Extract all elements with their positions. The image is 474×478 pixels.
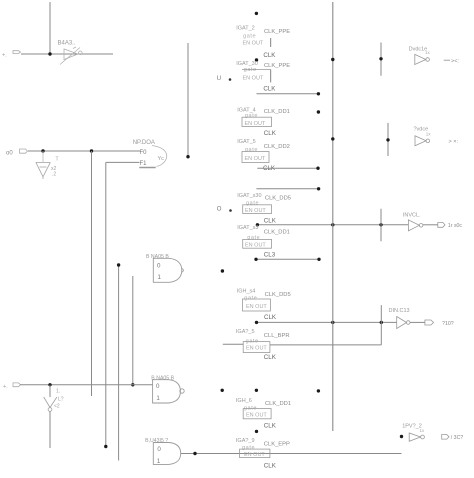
NAND gate G2 body <box>153 380 181 403</box>
svg-text:CLK: CLK <box>264 217 277 224</box>
wire bus D vertical <box>132 276 134 385</box>
svg-text:INVCL.: INVCL. <box>403 212 421 218</box>
clamp X1 stub <box>42 151 44 162</box>
junction node S1 a <box>48 383 51 386</box>
wire U3 output <box>423 224 438 226</box>
svg-text:o0: o0 <box>6 151 13 157</box>
junction on G3 output <box>193 452 196 455</box>
svg-text:B NA05 B: B NA05 B <box>146 254 169 260</box>
inverter U5 <box>409 433 424 441</box>
wire net O0 horizontal <box>28 150 140 152</box>
wire net S1 horizontal <box>20 384 153 386</box>
svg-text:EN OUT: EN OUT <box>244 452 265 458</box>
gated clock cell B7 <box>237 289 291 321</box>
junction B2 out end <box>317 92 320 95</box>
node dot above B2 <box>255 58 258 61</box>
wire B8 riser <box>380 305 382 345</box>
wire bus A vertical <box>91 151 93 396</box>
svg-text:NP.DOA: NP.DOA <box>133 140 155 146</box>
gated clock cell B1 <box>236 26 290 59</box>
node dot above B1 <box>255 12 258 15</box>
svg-text:IGH_s4: IGH_s4 <box>237 289 256 295</box>
wire bus B corner to F1 <box>106 161 140 163</box>
svg-text:+.: +. <box>3 384 8 390</box>
wire G3 output <box>181 453 402 455</box>
svg-text:0: 0 <box>157 446 161 453</box>
svg-text:EN OUT: EN OUT <box>245 156 266 162</box>
input port IN1 <box>2 51 21 59</box>
tap segment T3 right <box>380 209 382 242</box>
svg-text:CLK: CLK <box>263 86 276 93</box>
junction node Y <box>186 155 189 158</box>
inverter U3 <box>408 220 423 231</box>
tap T2 junction <box>386 138 389 141</box>
svg-text:/ 3C?: / 3C? <box>451 435 464 441</box>
svg-text:IGAT_s3: IGAT_s3 <box>237 225 258 231</box>
svg-text:T: T <box>56 157 59 163</box>
svg-text:1x: 1x <box>425 50 431 55</box>
trunk junction top <box>331 58 334 61</box>
gated clock cell B3 <box>237 107 290 137</box>
svg-text:EN OUT: EN OUT <box>243 76 264 82</box>
svg-text:0: 0 <box>157 262 161 269</box>
svg-text:gate: gate <box>244 295 257 301</box>
svg-text:IGAT_30: IGAT_30 <box>236 61 258 67</box>
svg-text:EN OUT: EN OUT <box>246 413 267 419</box>
svg-text:IGA?_9: IGA?_9 <box>236 438 255 444</box>
svg-text:CLK_PPE: CLK_PPE <box>264 63 290 69</box>
svg-text:EN OUT: EN OUT <box>245 208 266 214</box>
svg-text:CLK: CLK <box>264 354 277 361</box>
svg-text:1x: 1x <box>426 132 432 137</box>
wire B8 stub left <box>223 343 243 345</box>
wire bus C vertical <box>118 265 120 461</box>
gated clock cell B5 <box>237 193 291 224</box>
svg-text:gate: gate <box>243 33 256 39</box>
gated clock cell B8 <box>236 329 290 361</box>
tap segment T1 right <box>380 43 382 76</box>
svg-text:gate: gate <box>242 445 255 451</box>
inverter U4 <box>397 317 410 329</box>
clamp X2 tail <box>49 412 51 449</box>
junction node O0 b <box>90 149 93 152</box>
wire U4 output <box>410 321 425 323</box>
gated clock cell B6 <box>237 225 290 258</box>
inverter U1 <box>415 54 430 64</box>
wire B7 out to inverter U4 <box>257 321 397 323</box>
svg-text:CLK: CLK <box>264 130 277 137</box>
wire trunk CLK vertical <box>332 2 334 431</box>
svg-text:F0: F0 <box>140 150 148 156</box>
svg-text:EN OUT: EN OUT <box>246 346 267 352</box>
junction bus C top <box>117 263 120 266</box>
svg-text:CLK_DD1: CLK_DD1 <box>264 109 290 115</box>
node dot right of G1 <box>221 269 224 272</box>
svg-text:IGH_6: IGH_6 <box>236 398 252 404</box>
AND gate G0 bottom bar <box>139 167 155 169</box>
svg-text:EN OUT: EN OUT <box>245 243 266 249</box>
port marker O left of B5 <box>217 207 232 213</box>
svg-text:CLK_DD2: CLK_DD2 <box>264 144 290 150</box>
junction B5 tap <box>379 223 382 226</box>
wire B2 out <box>257 93 319 95</box>
svg-text:Yc: Yc <box>158 156 165 162</box>
svg-text:?10?: ?10? <box>442 321 454 327</box>
svg-text:CLK_PPE: CLK_PPE <box>264 29 290 35</box>
svg-text:EN OUT: EN OUT <box>243 40 264 46</box>
output port P4 <box>425 320 454 327</box>
wire vertical top-left <box>49 2 51 54</box>
clamp X2 triangle <box>44 397 57 411</box>
wire B8 out right <box>270 344 381 346</box>
svg-text:EN OUT: EN OUT <box>246 304 267 310</box>
output port P1 <box>444 59 460 65</box>
svg-text:B4A3..: B4A3.. <box>58 41 76 47</box>
node dot above B9 left <box>221 389 224 392</box>
NAND gate G3 body <box>153 443 180 465</box>
AND gate G0 body <box>152 146 167 167</box>
junction B7 tap <box>380 321 383 324</box>
output port P3 <box>438 223 463 230</box>
wire B6 out <box>256 258 319 260</box>
svg-text:1r s0c: 1r s0c <box>448 223 463 229</box>
gated clock cell B9 <box>236 398 291 429</box>
svg-text:F1: F1 <box>140 161 148 167</box>
node dot above B10 <box>255 430 258 433</box>
junction node top-left <box>48 52 51 55</box>
junction bus B bottom <box>104 445 107 448</box>
junction B6 out end <box>317 258 320 261</box>
junction B4 out end <box>316 167 319 170</box>
svg-text:1: 1 <box>158 274 162 281</box>
wire B4 out <box>257 167 318 169</box>
inverter U2 <box>415 136 430 146</box>
NAND gate G1 output curl <box>182 269 184 273</box>
junction B6 out start <box>254 258 257 261</box>
port marker U left of B2 <box>217 76 232 82</box>
svg-text:0: 0 <box>156 383 160 390</box>
gated clock cell B10 <box>236 438 290 470</box>
wire bus B vertical <box>105 162 107 446</box>
svg-text:CLL_BPR: CLL_BPR <box>264 333 290 339</box>
svg-text:L?: L? <box>58 397 64 403</box>
svg-text:CLK_DD5: CLK_DD5 <box>265 196 291 202</box>
wire horizontal top-left <box>21 53 113 55</box>
svg-text:gate: gate <box>244 67 257 73</box>
svg-text:CL3: CL3 <box>264 252 276 259</box>
clamp X1 label <box>51 157 59 178</box>
svg-text:+.: +. <box>2 53 7 59</box>
NAND gate G1 body <box>153 258 182 282</box>
svg-text:CLK: CLK <box>264 423 277 430</box>
clamp X1 triangle <box>36 162 50 179</box>
svg-text:1.: 1. <box>56 389 60 395</box>
svg-text:EN OUT: EN OUT <box>245 121 266 127</box>
svg-text:IGAT_s30: IGAT_s30 <box>237 193 261 199</box>
svg-text:<2: <2 <box>54 404 60 410</box>
junction net DD3 end <box>317 187 320 190</box>
svg-text:CLK: CLK <box>264 314 277 321</box>
trunk junction second <box>331 137 334 140</box>
svg-text:O: O <box>217 207 222 213</box>
svg-text:CLK: CLK <box>263 52 276 59</box>
svg-text:DIN.C13: DIN.C13 <box>389 308 410 314</box>
svg-text:.2: .2 <box>52 172 56 178</box>
input port O0 <box>6 149 28 157</box>
inverter U5 input dot <box>400 435 403 438</box>
node dot right of B3 <box>317 110 320 113</box>
svg-text:gate: gate <box>246 201 259 207</box>
svg-text:CLK: CLK <box>264 463 277 470</box>
buffer U1 <box>60 47 82 65</box>
svg-text:gate: gate <box>245 113 258 119</box>
svg-text:1: 1 <box>156 395 160 402</box>
clamp X2 stub <box>49 385 51 397</box>
svg-text:CLK_DD1: CLK_DD1 <box>264 229 290 235</box>
junction node O0 a <box>41 149 44 152</box>
svg-text:> ×:: > ×: <box>449 139 459 145</box>
svg-text:CLK_DD1: CLK_DD1 <box>265 401 291 407</box>
wire net DD3 <box>256 188 318 190</box>
input port S1 <box>3 383 21 390</box>
wire B5 out to inverter U3 <box>257 224 408 226</box>
tap segment T2 right <box>387 123 389 156</box>
svg-text:gate: gate <box>247 235 260 241</box>
svg-text:CLK_EPP: CLK_EPP <box>264 442 290 448</box>
node dot above B9 right <box>317 389 320 392</box>
svg-text:gate: gate <box>245 147 258 153</box>
junction bus D bottom <box>131 383 134 386</box>
svg-text:1x: 1x <box>420 428 426 433</box>
junction B7 trunk <box>331 321 334 324</box>
svg-text:IGAT_5: IGAT_5 <box>237 139 256 145</box>
gated clock cell B2 <box>236 61 290 93</box>
junction B5 trunk <box>331 223 334 226</box>
node dot above B9 middle <box>255 389 258 392</box>
svg-text:IGA?_5: IGA?_5 <box>236 329 255 335</box>
wire vertical net Y <box>187 43 189 157</box>
tap T1 junction <box>379 57 382 60</box>
svg-text:><:: ><: <box>451 59 459 65</box>
svg-text:1: 1 <box>157 458 161 465</box>
NAND gate G2 output bubble <box>180 389 184 393</box>
junction B5 out start <box>256 223 259 226</box>
svg-text:CLK_DD5: CLK_DD5 <box>265 292 291 298</box>
svg-text:U: U <box>217 76 221 82</box>
gated clock cell B4 <box>237 139 290 172</box>
clamp X2 label <box>54 389 64 410</box>
output port P5 <box>442 435 464 442</box>
junction B7 out start <box>255 321 258 324</box>
svg-text:IGAT_2: IGAT_2 <box>236 26 255 32</box>
